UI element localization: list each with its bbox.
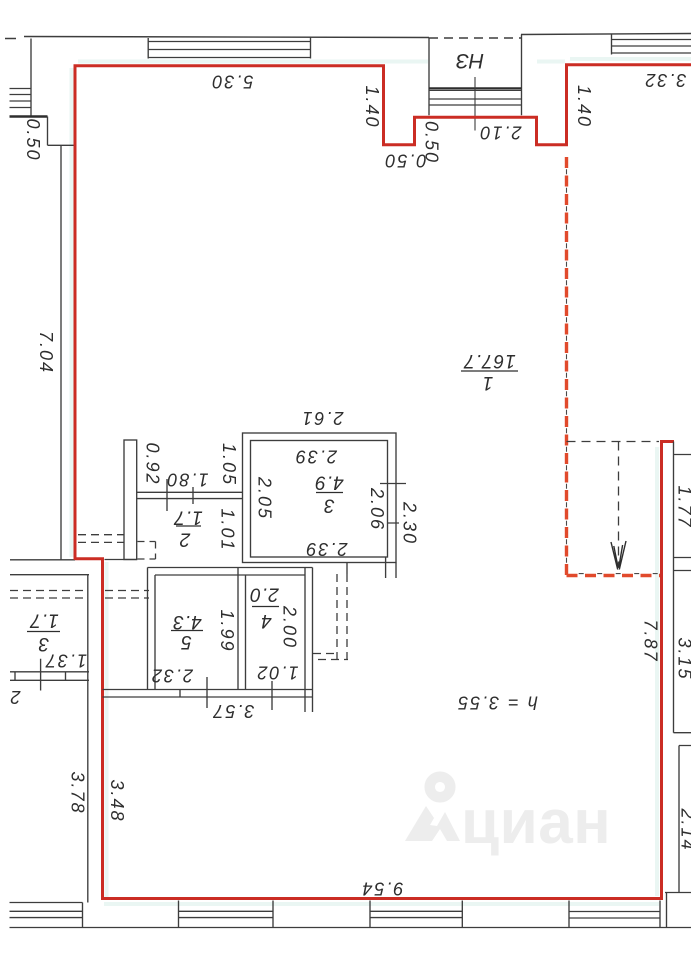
red dashed boundary entrance <box>567 157 661 576</box>
window top-left <box>148 37 310 59</box>
svg-text:2: 2 <box>179 528 192 549</box>
svg-text:2.14: 2.14 <box>677 807 691 851</box>
svg-text:3.15: 3.15 <box>674 637 691 680</box>
svg-text:1.99: 1.99 <box>217 609 237 652</box>
black thin dash overlay entrance <box>566 169 568 575</box>
room 3 storeroom walls <box>243 433 407 578</box>
svg-text:2.06: 2.06 <box>367 487 387 531</box>
niche dashed area right of room 4 <box>313 574 348 660</box>
svg-text:0.92: 0.92 <box>142 442 162 485</box>
svg-text:2.0: 2.0 <box>249 583 279 604</box>
svg-text:3.48: 3.48 <box>107 779 127 822</box>
adjacent rooms right edge <box>665 442 691 928</box>
balcony window center tick <box>474 77 476 131</box>
svg-text:5: 5 <box>180 631 192 652</box>
cyan highlight band above top wall <box>72 59 691 904</box>
svg-text:4: 4 <box>260 610 272 631</box>
balcony dashed top line <box>429 37 521 39</box>
svg-text:1.7: 1.7 <box>173 506 203 527</box>
lower-left black wall <box>87 681 89 903</box>
svg-text:1.40: 1.40 <box>574 85 594 128</box>
svg-text:1: 1 <box>482 372 494 393</box>
svg-text:1.01: 1.01 <box>217 508 237 551</box>
entrance arrow <box>611 541 626 570</box>
svg-text:1.05: 1.05 <box>219 443 239 486</box>
svg-text:3.78: 3.78 <box>67 771 87 814</box>
svg-text:2.39: 2.39 <box>304 539 348 559</box>
svg-text:2.61: 2.61 <box>300 408 344 428</box>
balcony НЗ window <box>429 35 522 116</box>
svg-text:1.37: 1.37 <box>44 650 87 670</box>
partition room2 <box>137 479 243 511</box>
svg-text:7.04: 7.04 <box>36 331 56 374</box>
svg-text:циан: циан <box>461 788 611 857</box>
svg-text:1.02: 1.02 <box>255 662 298 682</box>
svg-text:1.7: 1.7 <box>29 609 59 630</box>
svg-text:167.7: 167.7 <box>463 350 516 371</box>
svg-text:4.3: 4.3 <box>172 611 201 632</box>
svg-text:9.54: 9.54 <box>360 878 403 898</box>
dashed duct lines upper <box>78 535 124 543</box>
left step outline <box>10 117 75 560</box>
svg-text:2.05: 2.05 <box>254 476 274 520</box>
window top-right <box>612 34 691 55</box>
window left edge <box>10 39 32 117</box>
svg-text:0.50: 0.50 <box>383 150 426 170</box>
tambour dashed rectangle <box>567 442 660 568</box>
svg-text:2.10: 2.10 <box>478 122 522 142</box>
red apartment outline left-bottom <box>75 442 674 899</box>
svg-text:3: 3 <box>323 494 335 515</box>
svg-text:НЗ: НЗ <box>456 49 484 72</box>
svg-text:2.39: 2.39 <box>294 446 338 466</box>
thick sill left <box>10 115 48 118</box>
svg-text:5.30: 5.30 <box>210 71 253 91</box>
dashed duct lines lower <box>10 591 149 599</box>
svg-text:1.80: 1.80 <box>165 469 208 489</box>
watermark cian logo <box>430 777 451 798</box>
room2 bottom line <box>105 559 138 561</box>
svg-text:2: 2 <box>8 687 21 707</box>
left room 3 bathroom walls <box>10 575 89 691</box>
building bottom band <box>10 901 691 928</box>
svg-text:2.00: 2.00 <box>279 605 299 649</box>
building top outline line <box>5 34 691 39</box>
svg-text:4.9: 4.9 <box>314 471 343 492</box>
svg-text:3.32: 3.32 <box>643 70 686 90</box>
red apartment outline top <box>75 65 691 560</box>
svg-text:2.30: 2.30 <box>399 501 419 545</box>
svg-text:1.77: 1.77 <box>674 485 691 528</box>
svg-text:0.50: 0.50 <box>23 118 43 161</box>
svg-text:h = 3.55: h = 3.55 <box>456 692 538 712</box>
pier wall stub room2 <box>124 440 137 560</box>
svg-text:0.50: 0.50 <box>421 121 441 164</box>
svg-text:2.32: 2.32 <box>150 665 194 685</box>
svg-text:7.87: 7.87 <box>640 619 660 662</box>
rooms 5 and 4 walls <box>103 568 313 713</box>
dashed square near pier <box>138 542 156 560</box>
svg-text:1.40: 1.40 <box>362 85 382 128</box>
svg-text:3.57: 3.57 <box>211 701 254 721</box>
